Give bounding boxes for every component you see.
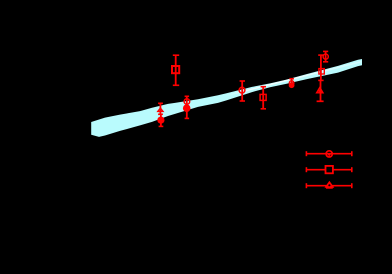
big open square S1 [172, 66, 179, 73]
small blob in triangle T2 [318, 90, 321, 93]
error bar of open triangle T2 [317, 80, 324, 101]
error bar of open square S2 [261, 87, 266, 109]
filled circle F2 [183, 104, 191, 112]
open circle O1 [184, 99, 190, 105]
error bar of open circle O2 [240, 81, 245, 101]
error bar of open triangle T1 [158, 103, 163, 114]
error bar of big open square S1 [173, 55, 179, 85]
legend row 3: open triangle entry [306, 182, 351, 189]
filled circle F1 [157, 117, 164, 124]
small blob in triangle T1 [159, 110, 161, 112]
open square S2 [260, 94, 266, 100]
confidence band (pale cyan) [91, 59, 362, 137]
legend row 2: open square entry [306, 166, 351, 173]
open circle O3 [289, 81, 294, 86]
error bar of circle pair at x=292 [289, 79, 294, 88]
error bar of open circle O4 [323, 51, 328, 61]
open circle O2 [239, 87, 245, 93]
open triangle T2 [317, 87, 323, 92]
open square S3 [319, 69, 324, 74]
open circle O4 [323, 54, 328, 59]
error bar of filled circle F1 [159, 115, 164, 127]
error bar of circle pair at x=187 [185, 96, 190, 118]
open triangle T1 [158, 108, 163, 112]
filled circle F3 [289, 82, 295, 88]
error bar of open square S3 [318, 55, 323, 80]
legend row 1: open circle entry [306, 151, 351, 157]
